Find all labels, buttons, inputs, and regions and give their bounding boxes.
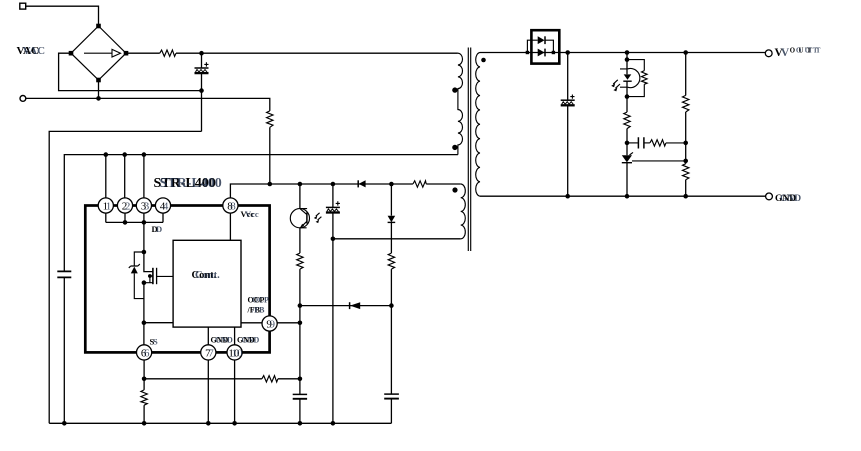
label OCP	[248, 296, 270, 305]
node aux phase dot	[452, 187, 457, 192]
node output cap bottom	[565, 194, 570, 199]
node drain bus pin2	[123, 220, 128, 225]
transformer T1 aux winding	[461, 184, 466, 239]
node diode line left	[298, 303, 303, 308]
svg-text:GND: GND	[780, 194, 801, 204]
wire main HV rail to transformer	[176, 52, 458, 54]
node LED resistor tap bottom	[625, 94, 630, 99]
terminal J2 (AC neutral circle)	[20, 96, 26, 102]
resistor R10 (divider lower)	[683, 164, 689, 180]
node bus left vertical	[62, 421, 67, 426]
node divider RC junction	[683, 159, 688, 164]
label D	[152, 224, 163, 234]
wire pin10 to bus	[234, 360, 236, 424]
pin 6	[137, 345, 152, 360]
resistor R5 (zener leg)	[388, 253, 394, 269]
svg-text:6: 6	[144, 347, 150, 359]
node source junction	[142, 320, 147, 325]
svg-text:8: 8	[230, 200, 236, 212]
resistor R7 (LED series)	[624, 112, 630, 129]
diode D5 upper	[538, 36, 545, 44]
wire AC neutral bus	[26, 98, 270, 111]
node bus pin10	[232, 421, 237, 426]
label Cont.	[192, 270, 221, 281]
wire bridge bottom stub	[98, 80, 100, 98]
resistor R3 (aux series)	[413, 181, 426, 187]
node aux return junction	[331, 237, 336, 242]
transformer T1 secondary winding	[476, 53, 480, 197]
wire LED branch	[626, 53, 628, 75]
wire secondary bottom rail	[480, 195, 766, 197]
node LED branch top	[625, 50, 630, 55]
label GND pin7	[211, 336, 234, 345]
svg-text:STR-L400: STR-L400	[160, 176, 222, 191]
wire sense line right	[278, 378, 300, 380]
node secondary phase dot	[481, 58, 486, 63]
capacitor C7 (drain snubber)	[57, 271, 71, 277]
control block U1 Cont	[173, 240, 241, 327]
wire Vcc cap branch	[332, 184, 334, 207]
node divider bottom on rail	[683, 194, 688, 199]
node bus C2	[331, 421, 336, 426]
node pin9 wire junction	[298, 321, 303, 326]
svg-text:7: 7	[208, 347, 214, 359]
node sense tap	[142, 377, 147, 382]
node drain rail pin1	[104, 152, 109, 157]
label GND right	[775, 194, 801, 204]
resistor R4 (opto emitter)	[297, 253, 303, 269]
wire RC to divider	[666, 142, 686, 144]
wire opto emitter	[299, 228, 301, 253]
wire source to control block	[144, 322, 173, 324]
capacitor C2 (Vcc electrolytic)	[326, 201, 340, 423]
resistor R11 (current sense)	[141, 390, 147, 405]
wire internal drain	[144, 222, 153, 271]
node Vcc startup junction	[268, 182, 273, 187]
label VAC	[17, 45, 46, 57]
wire control to pin10	[234, 327, 236, 345]
node RC tap left	[625, 141, 630, 146]
pin 2	[117, 198, 132, 213]
shunt regulator D7	[622, 152, 633, 196]
node bus pin7	[206, 421, 211, 426]
wire divider upper	[685, 53, 687, 96]
node 431 bottom on rail	[625, 194, 630, 199]
wire to 431 node	[626, 129, 628, 156]
node drain bus pin3	[142, 220, 147, 225]
label STR-L400	[154, 176, 222, 191]
node C1 bottom junction	[199, 88, 204, 93]
wire aux return	[333, 238, 461, 240]
node bus C3	[298, 421, 303, 426]
wire pin9 to opto line	[277, 322, 300, 324]
wire sense line	[144, 378, 262, 380]
wire stub pin2	[124, 155, 126, 199]
diode D5 lower	[538, 49, 545, 57]
bridge rectifier BR1	[69, 24, 129, 83]
wire diode line	[300, 305, 392, 307]
wire stub pin3	[143, 155, 145, 199]
wire zener leg lower	[390, 269, 392, 394]
node divider top	[683, 50, 688, 55]
resistor R8 (feedback RC)	[650, 140, 666, 146]
wire photo-transistor branch	[299, 184, 301, 209]
node sense line junction	[298, 377, 303, 382]
svg-text:VAC: VAC	[23, 45, 45, 57]
node Vcc opto junction	[298, 182, 303, 187]
wire 431 ref to divider	[632, 160, 686, 162]
wire left drop from C1 to bottom bus	[49, 131, 201, 423]
wire startup resistor to Vcc line	[269, 127, 271, 184]
node internal drain zener tap	[142, 250, 147, 255]
svg-text:10: 10	[232, 347, 244, 359]
wire bridge left loop	[59, 53, 202, 90]
svg-text:TT: TT	[808, 48, 824, 55]
capacitor C4	[384, 394, 399, 423]
pin 7	[201, 345, 216, 360]
wire control to pin9	[241, 322, 262, 324]
svg-text:/FB: /FB	[251, 306, 265, 315]
svg-text:GND: GND	[215, 336, 233, 345]
pin 10	[227, 345, 243, 360]
IC U1 box STR-L400	[85, 206, 269, 353]
node zener leg diode junction	[389, 303, 394, 308]
terminal VOUT	[765, 50, 772, 57]
resistor R6 (parallel with LED)	[627, 60, 647, 97]
wire divider bottom	[685, 180, 687, 197]
label FB	[247, 306, 266, 315]
label GND pin10	[237, 336, 260, 345]
opto LED D6	[611, 69, 640, 97]
label Vcc	[241, 209, 259, 219]
resistor R9 (divider upper)	[683, 95, 689, 112]
photo-transistor Q1	[290, 209, 321, 228]
wire J1 to bridge top	[26, 6, 99, 26]
svg-text:2: 2	[125, 200, 130, 212]
svg-text:GND: GND	[242, 336, 260, 345]
capacitor C3	[293, 394, 307, 423]
wire source to pin6	[143, 323, 145, 345]
svg-text:1: 1	[106, 200, 112, 212]
transformer T1 core	[468, 48, 470, 252]
node primary phase dot upper	[452, 87, 457, 92]
pin 8	[223, 198, 238, 213]
wire pin6 down	[143, 360, 145, 390]
capacitor C6 (feedback RC)	[627, 137, 650, 148]
pin 3	[136, 198, 151, 213]
capacitor C5 (output electrolytic)	[561, 53, 575, 197]
wire opto emitter lower	[299, 269, 301, 394]
diode D2 (Vcc rectifier)	[358, 180, 365, 187]
node drain rail pin3	[142, 152, 147, 157]
terminal J1 (AC line square)	[20, 3, 26, 9]
node LED resistor tap top	[625, 57, 630, 62]
wire LED branch lower	[626, 97, 628, 113]
wire stub pin1	[105, 155, 107, 199]
rectifier D5 package box	[531, 30, 559, 63]
node drain rail pin2	[122, 152, 127, 157]
wire drain rail (pins 1-3 to primary)	[64, 155, 458, 424]
resistor R2 (startup)	[267, 111, 273, 127]
pin 9	[262, 316, 277, 331]
wire divider middle	[685, 112, 687, 164]
wire bottom bus	[49, 422, 391, 424]
label S	[150, 336, 159, 346]
svg-text:D: D	[156, 224, 162, 234]
svg-text:9: 9	[270, 318, 276, 330]
node Vcc zener junction	[389, 182, 394, 187]
node bus sense	[142, 421, 147, 426]
svg-text:3: 3	[144, 200, 150, 212]
node HV junction at C1	[199, 51, 204, 56]
transistor Q2 (internal MOSFET)	[142, 268, 174, 323]
node primary phase dot lower	[452, 145, 457, 150]
wire pins1-4 drain bus	[106, 213, 163, 223]
transformer T1 primary winding	[458, 53, 463, 154]
node output cap top	[565, 50, 570, 55]
wire control to pin7	[207, 327, 209, 345]
resistor R1 (series line resistor)	[160, 50, 176, 56]
terminal GND	[766, 193, 773, 200]
wire secondary top rail	[480, 52, 765, 54]
node D5 left tap	[526, 51, 529, 54]
svg-text:Vcc: Vcc	[245, 209, 259, 219]
wire sense resistor to bus	[143, 405, 145, 423]
diode D3 (clamp zener)	[388, 184, 396, 253]
svg-text:4: 4	[163, 200, 169, 212]
svg-text:Cont.: Cont.	[195, 270, 220, 281]
capacitor C1 (bulk electrolytic)	[195, 53, 209, 131]
pin 1	[98, 198, 113, 213]
zener Z1 (gate protect)	[129, 252, 144, 299]
wire pin7 to bus	[207, 360, 209, 424]
resistor R12 (sense filter)	[262, 376, 278, 382]
diode D4	[350, 302, 361, 309]
node Vcc cap junction	[331, 182, 336, 187]
node RC tap right	[683, 141, 688, 146]
wire D5 bypass loop	[527, 40, 553, 52]
node D5 right tap	[552, 51, 555, 54]
wire pin8 to control	[229, 213, 231, 241]
wire Vcc line	[230, 184, 460, 198]
svg-text:S: S	[153, 336, 158, 346]
wire bridge right to resistor	[126, 52, 160, 54]
node bridge bottom on neutral	[96, 96, 101, 101]
label VOUT	[775, 47, 824, 59]
pin 4	[155, 198, 170, 213]
svg-text:V: V	[781, 47, 790, 59]
svg-text:OCP: OCP	[252, 296, 269, 305]
